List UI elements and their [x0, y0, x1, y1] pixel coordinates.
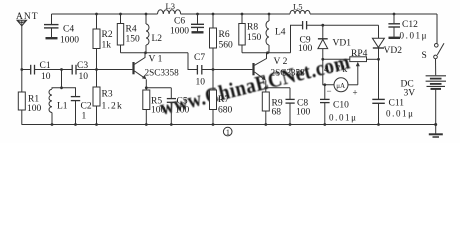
wire C9 to VD1 node and VD2 — [307, 24, 379, 26]
svg-text:68: 68 — [272, 108, 282, 118]
svg-text:560: 560 — [219, 41, 234, 51]
node C12 top — [393, 13, 396, 16]
capacitor C6 — [170, 14, 204, 37]
transistor V1 2SC3358 — [134, 53, 180, 88]
capacitor C7 — [194, 53, 205, 88]
diode VD1 — [318, 25, 351, 59]
svg-text:10: 10 — [196, 78, 206, 88]
resistor R1 — [18, 70, 41, 125]
svg-text:R7: R7 — [218, 95, 229, 105]
svg-text:V 2: V 2 — [274, 57, 288, 67]
svg-text:100: 100 — [298, 44, 313, 54]
svg-text:−: − — [327, 86, 332, 96]
node R7 ground — [212, 123, 215, 126]
wire tank top — [52, 88, 76, 96]
svg-text:C4: C4 — [63, 25, 74, 35]
node VD1 top — [321, 24, 324, 27]
node battery ground — [434, 123, 437, 126]
node R3 ground — [95, 123, 98, 126]
svg-text:C6: C6 — [174, 17, 185, 27]
wiper arrow to meter — [356, 62, 360, 85]
resistor R9 — [262, 88, 283, 125]
capacitor C4 — [44, 14, 79, 46]
ground rail (bottom) — [22, 124, 436, 126]
capacitor C10 — [320, 85, 358, 125]
inductor L2 — [146, 14, 162, 53]
resistor R4 — [117, 14, 140, 53]
wire V2 base — [213, 69, 252, 71]
node R9 ground — [264, 123, 267, 126]
capacitor C5 — [167, 88, 190, 125]
resistor R8 — [239, 14, 262, 53]
capacitor C3 — [72, 61, 88, 82]
inductor L3 — [158, 1, 181, 14]
node V2 base — [212, 68, 215, 71]
svg-text:1.2k: 1.2k — [102, 102, 123, 112]
ground bar for C4 — [46, 37, 58, 39]
svg-text:VD1: VD1 — [333, 38, 352, 48]
svg-text:C10: C10 — [333, 101, 349, 111]
svg-text:100: 100 — [151, 106, 166, 116]
watermark — [158, 50, 353, 120]
node C8 ground — [289, 123, 292, 126]
svg-text:S: S — [422, 51, 427, 61]
wire V1 collector bus — [121, 52, 189, 54]
svg-text:L3: L3 — [166, 1, 175, 11]
svg-text:0.01μ: 0.01μ — [386, 109, 415, 119]
node C5 ground — [170, 123, 173, 126]
wire tank stub — [61, 70, 63, 88]
capacitor C12 — [388, 14, 428, 41]
svg-text:C7: C7 — [194, 53, 205, 63]
wire between C1 and C3 — [35, 69, 72, 71]
svg-text:1k: 1k — [102, 41, 112, 51]
wire emitter node — [146, 87, 171, 89]
resistor R3 — [93, 70, 123, 125]
wire C7 to base node — [202, 69, 213, 71]
node V2 emitter — [264, 86, 267, 89]
capacitor C1 — [31, 61, 51, 82]
capacitor C2 — [71, 97, 92, 125]
svg-text:3V: 3V — [404, 89, 416, 99]
node C6 top — [196, 13, 199, 16]
svg-text:100: 100 — [296, 108, 311, 118]
ground bar for C12 — [389, 37, 401, 39]
node tank stub — [60, 68, 63, 71]
svg-text:4.7k: 4.7k — [324, 65, 349, 75]
wire base line V1 left — [22, 69, 31, 71]
capacitor C9 — [298, 21, 313, 54]
inductor L5 — [290, 2, 310, 15]
battery DC 3V — [401, 76, 447, 125]
svg-text:1: 1 — [82, 112, 87, 122]
svg-text:C2: C2 — [81, 102, 92, 112]
svg-text:RP4: RP4 — [351, 49, 368, 59]
node V1 collector/L2 — [144, 51, 147, 54]
diode VD2 — [372, 25, 402, 59]
svg-text:150: 150 — [126, 35, 141, 45]
svg-text:R2: R2 — [102, 30, 113, 40]
svg-text:0.01μ: 0.01μ — [329, 113, 358, 123]
wire emitter node 2 — [266, 87, 290, 89]
node C10 ground — [323, 123, 326, 126]
node R4 top — [119, 13, 122, 16]
svg-text:1: 1 — [226, 127, 230, 137]
resistor R6 — [210, 14, 234, 70]
node VD2 bottom — [377, 58, 380, 61]
svg-text:R4: R4 — [126, 25, 137, 35]
svg-text:R3: R3 — [102, 90, 113, 100]
node tank top — [60, 86, 63, 89]
node R8 top — [241, 13, 244, 16]
node C11 ground — [377, 123, 380, 126]
wire V2 collector bus — [242, 52, 291, 54]
wire elbow up to C9 line — [291, 25, 303, 53]
wire VD1 node down to meter — [323, 59, 334, 85]
svg-text:100: 100 — [175, 106, 190, 116]
svg-text:R6: R6 — [219, 30, 230, 40]
svg-text:C12: C12 — [402, 20, 418, 30]
top supply rail (middle segment) — [181, 13, 291, 15]
node ANT/R1 — [20, 68, 23, 71]
node R2/R3 base — [95, 68, 98, 71]
node C2 ground — [74, 123, 77, 126]
svg-text:VD2: VD2 — [384, 46, 403, 56]
node L2 top — [145, 13, 148, 16]
svg-text:L2: L2 — [152, 34, 163, 44]
node 1 marker — [223, 127, 232, 137]
top supply rail (left segment) — [52, 13, 158, 15]
svg-text:10: 10 — [79, 72, 89, 82]
ground symbol — [429, 125, 443, 138]
svg-text:L4: L4 — [275, 28, 286, 38]
svg-text:V 1: V 1 — [149, 55, 163, 65]
inductor L4 — [266, 14, 286, 53]
svg-text:R8: R8 — [247, 23, 258, 33]
capacitor C11 — [372, 59, 414, 124]
svg-text:ANT: ANT — [16, 12, 39, 22]
inductor L1 — [49, 89, 68, 124]
switch S — [422, 14, 445, 75]
resistor R2 — [93, 14, 113, 70]
wire C3 to V1 base — [76, 69, 132, 71]
node VD1 bottom — [321, 58, 324, 61]
node L4 top — [268, 13, 271, 16]
svg-text:1000: 1000 — [60, 36, 79, 46]
antenna ANT — [16, 12, 39, 26]
resistor R7 — [210, 70, 233, 125]
svg-text:2SC3358: 2SC3358 — [145, 68, 180, 78]
svg-text:2SC3358: 2SC3358 — [271, 68, 306, 78]
node R5 ground — [145, 123, 148, 126]
ground bar for C6 — [192, 31, 204, 33]
transistor V2 2SC3358 — [254, 53, 306, 88]
svg-text:+: + — [353, 88, 358, 98]
svg-text:100: 100 — [27, 104, 42, 114]
svg-text:1000: 1000 — [170, 27, 189, 37]
svg-text:L1: L1 — [57, 102, 68, 112]
wire antenna lead — [21, 26, 23, 70]
capacitor C8 — [286, 88, 311, 125]
node V2 collector/L4 — [266, 51, 269, 54]
node R6 top — [212, 13, 215, 16]
resistor R5 — [143, 88, 166, 125]
svg-text:L5: L5 — [293, 2, 302, 12]
meter uA — [327, 78, 358, 98]
svg-text:680: 680 — [218, 106, 233, 116]
svg-text:C11: C11 — [389, 99, 405, 109]
top supply rail (right segment) — [310, 13, 437, 15]
potentiometer RP4 — [323, 49, 379, 75]
wire elbow to C7 — [188, 53, 197, 70]
node R2 top — [95, 13, 98, 16]
svg-text:R1: R1 — [28, 95, 39, 105]
node C10 tap — [323, 83, 326, 86]
svg-text:10: 10 — [41, 72, 51, 82]
node V1 emitter — [145, 86, 148, 89]
svg-text:0.01μ: 0.01μ — [400, 31, 429, 41]
svg-text:μA: μA — [336, 82, 345, 90]
svg-text:150: 150 — [247, 33, 262, 43]
node L1 ground — [51, 123, 54, 126]
